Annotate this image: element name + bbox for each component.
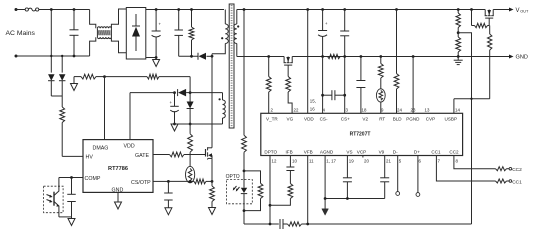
svg-text:1, 17: 1, 17 [326, 159, 336, 164]
svg-text:RT7207T: RT7207T [350, 132, 371, 138]
diode D3 (aux clamp) [187, 93, 194, 124]
capacitor C10 (feedback series) [280, 219, 288, 229]
transformer T1 secondary winding [234, 10, 237, 57]
IC1 ground [115, 202, 122, 209]
svg-text:VFB: VFB [304, 150, 313, 155]
GND terminal [509, 55, 528, 61]
optocoupler U3 LED side [226, 171, 253, 224]
earth ground (output) [454, 57, 463, 65]
resistor R2 (DMAG lower) [74, 74, 105, 79]
svg-text:14: 14 [455, 108, 460, 113]
svg-text:V9: V9 [379, 150, 385, 155]
junction drain node [211, 55, 214, 58]
mosfet Q3 (load switch) [484, 10, 486, 16]
optocoupler U3 transistor side [44, 178, 64, 213]
svg-text:V_TR: V_TR [266, 117, 278, 122]
pin GATE wire [153, 154, 170, 156]
capacitor C11 (IFB) [286, 156, 294, 184]
bulk capacitor C1 [152, 8, 162, 59]
svg-text:VCP: VCP [357, 150, 366, 155]
pin CC2 wire [454, 156, 496, 169]
wire cs to Rcs [168, 180, 194, 183]
sense ground [209, 208, 216, 215]
svg-text:24: 24 [397, 108, 402, 113]
svg-text:CC2: CC2 [449, 150, 459, 155]
snubber capacitor C2 [174, 8, 183, 56]
svg-text:22: 22 [294, 108, 299, 113]
capacitor C4 (COMP) [67, 176, 76, 217]
svg-text:VDD: VDD [304, 117, 314, 122]
aux ground [171, 124, 178, 131]
wire DMAG divider to aux [189, 77, 191, 93]
X-capacitor CX1 [70, 8, 79, 57]
svg-text:CC1: CC1 [431, 150, 441, 155]
svg-text:20: 20 [364, 159, 369, 164]
wire load switch gate [488, 18, 490, 25]
wire source [211, 158, 213, 181]
svg-text:DPTO: DPTO [264, 150, 277, 155]
resistor R22 (CC2) [496, 167, 507, 171]
resistor R13 (divider upper) [456, 8, 460, 33]
controller U2 RT7207T [261, 113, 463, 155]
wire feedback rail right [302, 223, 472, 225]
mosfet Q1 (primary switch) [206, 147, 213, 159]
svg-text:23: 23 [411, 108, 416, 113]
svg-text:16: 16 [310, 107, 315, 112]
AGND ground [322, 209, 329, 215]
node DMAG [103, 75, 106, 78]
svg-text:CS-: CS- [320, 117, 328, 122]
svg-text:10: 10 [292, 159, 297, 164]
svg-text:21: 21 [386, 159, 391, 164]
pin VFB wire [306, 156, 309, 226]
dmag ground [71, 77, 78, 91]
svg-text:18: 18 [362, 108, 367, 113]
svg-text:V: V [516, 8, 520, 14]
svg-text:CS+: CS+ [341, 117, 350, 122]
svg-text:GND: GND [516, 55, 528, 61]
svg-text:CC2: CC2 [512, 167, 522, 173]
svg-text:BLD: BLD [393, 117, 403, 122]
svg-text:AC Mains: AC Mains [6, 30, 36, 37]
svg-text:CS/OTP: CS/OTP [131, 180, 151, 186]
junction neutral rail [50, 55, 52, 57]
svg-text:RT7786: RT7786 [108, 166, 128, 172]
pin D+ testpoint [416, 156, 420, 197]
node aux top [189, 91, 192, 94]
resistor R21 (CC1) [496, 179, 507, 183]
AC mains line terminal (top) [15, 8, 18, 11]
svg-text:V2: V2 [362, 117, 368, 122]
capacitor C8 (CS filter) [323, 90, 345, 100]
transformer T1 primary winding [212, 10, 228, 54]
capacitor C7 (output bulk 2) [340, 8, 349, 58]
bridge rectifier BD1 [126, 8, 146, 60]
wire Vout top rail [237, 9, 485, 11]
CC2 terminal [507, 167, 523, 173]
svg-text:VDD: VDD [124, 144, 135, 150]
resistor R18 (opto bias) [243, 171, 263, 212]
transformer T1 aux winding [223, 93, 226, 124]
svg-text:GATE: GATE [135, 153, 149, 159]
thermistor NTC2 (RT) [376, 78, 385, 113]
svg-text:RT: RT [379, 117, 385, 122]
pin DPTO wire [269, 156, 272, 226]
svg-text:VG: VG [287, 117, 294, 122]
wire bridge + output [146, 9, 224, 11]
wire gate to mosfet [184, 154, 206, 156]
resistor R9 (VG gate) [286, 65, 292, 113]
pin GND wire [117, 192, 119, 202]
resistor R6 (CS series) [194, 179, 206, 184]
svg-text:COMP: COMP [85, 176, 101, 182]
capacitor C12 (VS) [343, 156, 352, 200]
pin COMP wire [59, 177, 83, 179]
resistor R11 (RT) [378, 55, 383, 78]
AC mains neutral terminal (bottom) [15, 55, 18, 58]
IC2 top pin labels [266, 99, 460, 122]
CC1 terminal [507, 179, 523, 185]
wire opto emitter [59, 208, 72, 217]
primary phase dot [221, 37, 223, 39]
wire tap feedback [458, 33, 471, 224]
wire USBP link [454, 98, 490, 114]
pin AGND wire [324, 156, 326, 209]
svg-text:D+: D+ [414, 150, 420, 155]
svg-text:VS: VS [346, 150, 352, 155]
aux phase dot [219, 98, 221, 100]
svg-text:HV: HV [86, 155, 94, 161]
pin PGND wire [412, 55, 415, 113]
svg-text:19: 19 [349, 159, 354, 164]
controller U1 RT7786 [83, 140, 153, 194]
resistor R14 (divider lower) [456, 33, 461, 58]
IC2 bottom pin labels [264, 150, 459, 164]
wire bridge - output [146, 57, 156, 59]
wire drain [211, 54, 213, 148]
resistor R8 (V_TR) [266, 55, 271, 113]
comp ground [68, 217, 75, 226]
Vout terminal [509, 8, 529, 15]
resistor R10 (current shunt) [328, 54, 341, 58]
resistor R12 (BLD) [394, 8, 399, 113]
wire Vout output [493, 9, 509, 11]
capacitor C13 (V9) [380, 156, 389, 199]
capacitor C6 (output bulk 1) [318, 8, 328, 58]
resistor R16 (USBP) [488, 26, 492, 99]
node divider tap [457, 31, 460, 34]
pin CS- wire [321, 57, 324, 114]
svg-text:15,: 15, [310, 99, 316, 104]
common-mode choke L1 [90, 9, 127, 56]
pin DMAG wire [104, 77, 106, 140]
svg-text:GND: GND [112, 188, 124, 194]
node opto top [243, 170, 246, 173]
wire AC neutral rail [16, 55, 90, 57]
capacitor C5 (CS filter) [164, 180, 173, 208]
pin VCP stub [362, 156, 364, 158]
HV feed from AC diodes [48, 55, 65, 157]
svg-text:D-: D- [393, 150, 398, 155]
wire aux bottom return [173, 123, 222, 126]
svg-text:OUT: OUT [520, 10, 529, 14]
mosfet Q2 (sync rectifier) [283, 57, 285, 63]
cs filter ground [165, 208, 172, 215]
wire aux top [190, 92, 222, 94]
resistor R19 (feedback series) [288, 222, 302, 226]
svg-text:12: 12 [272, 159, 277, 164]
pin HV wire [62, 155, 83, 157]
snubber clamp diode D1 [198, 53, 212, 60]
svg-text:CC1: CC1 [512, 179, 522, 185]
wire to source node [206, 180, 213, 183]
wire secondary gnd rail right [292, 56, 509, 58]
pin D- testpoint [396, 156, 400, 196]
pin CS/OTP wire [153, 180, 168, 182]
svg-text:PGND: PGND [406, 117, 420, 122]
wire feedback bottom rail [244, 223, 279, 225]
wire secondary gnd rail left [237, 56, 284, 58]
resistor R5 (gate) [170, 152, 185, 157]
svg-text:DMAG: DMAG [93, 146, 109, 152]
svg-text:13: 13 [425, 108, 430, 113]
svg-text:USBP: USBP [445, 117, 458, 122]
secondary phase dot [237, 25, 239, 27]
resistor R4 (OTP) [188, 124, 193, 152]
svg-text:AGND: AGND [320, 150, 334, 155]
svg-text:11: 11 [309, 159, 314, 164]
wire VDD to IC [130, 93, 175, 140]
transformer T1 core [229, 4, 234, 128]
resistor R20 (IFB) [270, 184, 293, 206]
pin CS+ wire [343, 57, 346, 114]
pin CC1 wire [436, 156, 495, 182]
wire snubber bottom [179, 55, 198, 58]
resistor R15 (load switch gate) [472, 23, 488, 27]
node aux bottom [189, 123, 192, 126]
resistor R3 (DMAG upper) [105, 74, 191, 79]
svg-text:IFB: IFB [286, 150, 293, 155]
snubber resistor R1 [189, 8, 194, 56]
wire VDD2 feed [306, 8, 309, 113]
fuse F1 [16, 8, 90, 11]
capacitor C9 (V2) [356, 55, 365, 113]
svg-text:CVP: CVP [426, 117, 435, 122]
capacitor C3 (VDD) [170, 91, 179, 124]
primary ground [153, 58, 160, 67]
diode D2 (VDD rectifier) [178, 89, 191, 97]
thermistor NTC1 [186, 152, 195, 183]
resistor R17 (opto feed) [242, 8, 247, 171]
wire AGND bus [324, 197, 385, 200]
wire gate feed from Vout [470, 8, 473, 25]
resistor R7 (sense) [210, 181, 215, 207]
wire line-to-HV-diode vertical [50, 8, 53, 73]
